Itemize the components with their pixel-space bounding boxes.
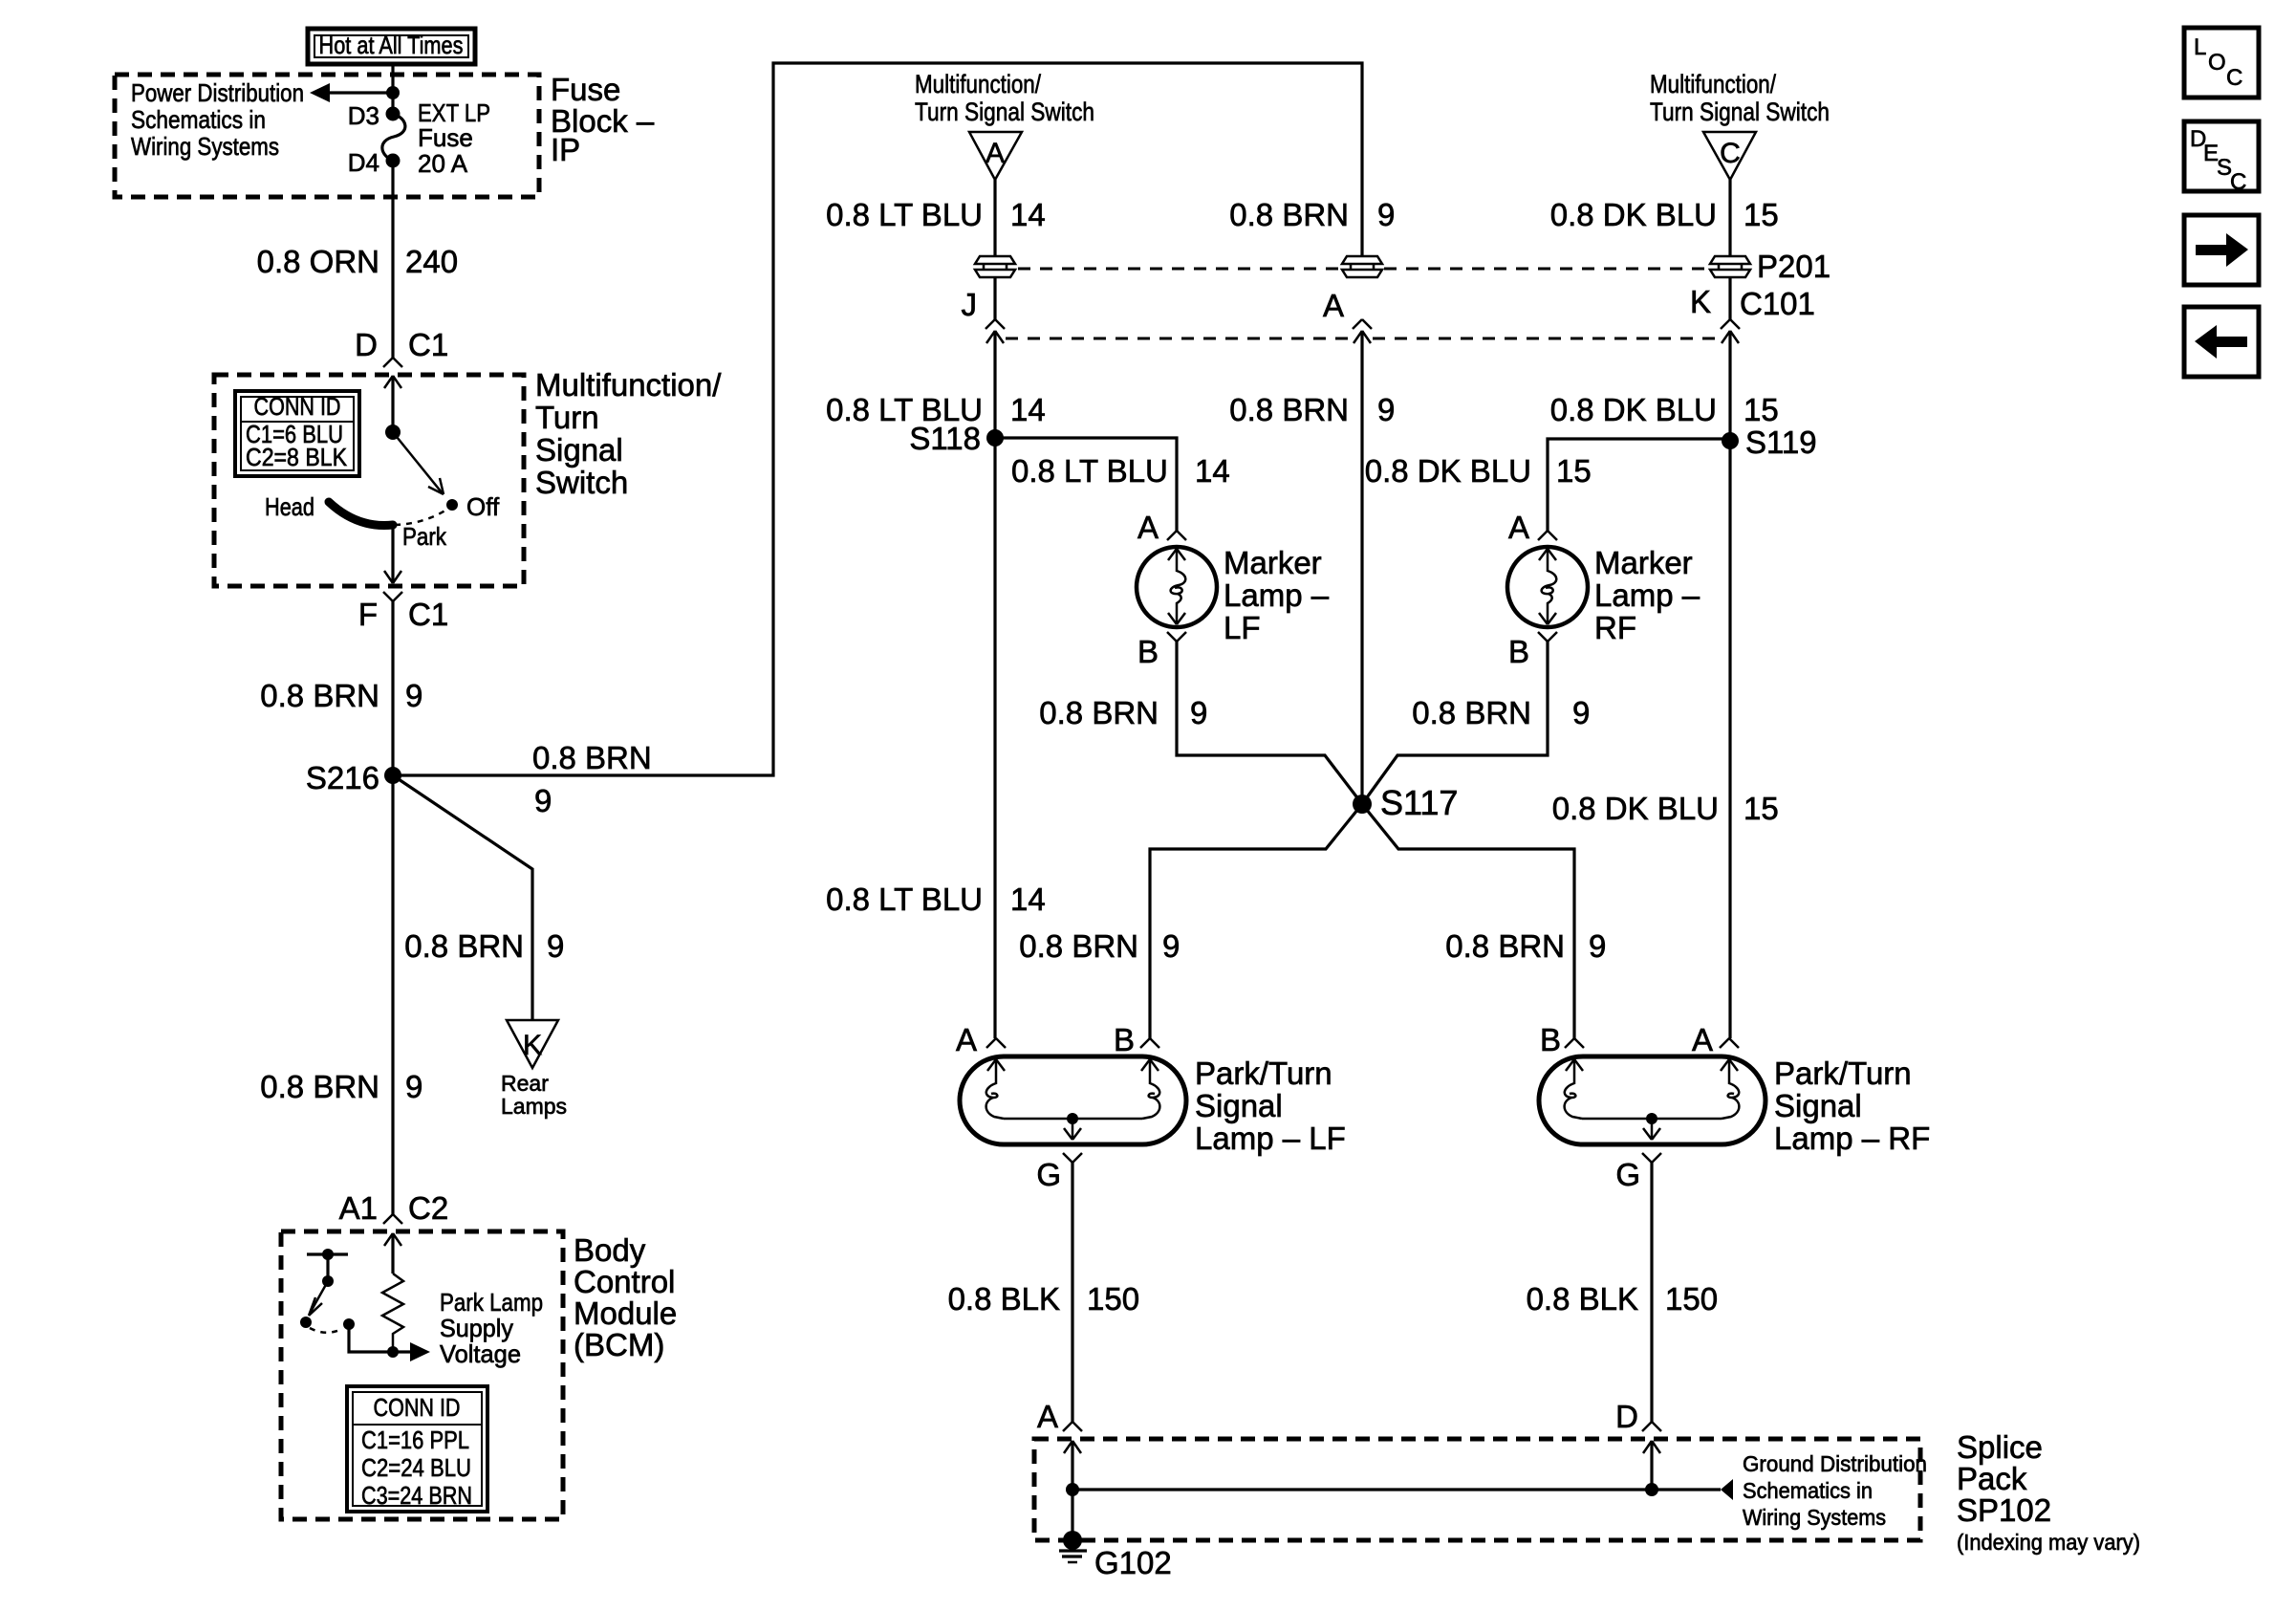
svg-text:B: B [1540,1022,1561,1057]
wire A triangle to P201, 0.8 LT BLU 14 [993,180,996,255]
triangle connector A [969,132,1022,180]
svg-text:(Indexing may vary): (Indexing may vary) [1957,1530,2140,1555]
svg-text:0.8 BRN: 0.8 BRN [1019,928,1138,964]
svg-text:MarkerLamp –RF: MarkerLamp –RF [1594,545,1700,645]
connector C101 terminal A [1323,288,1372,343]
LOC icon [2184,28,2259,98]
svg-text:Park: Park [402,522,447,551]
Power Distribution reference arrow [310,83,393,102]
svg-text:K: K [523,1030,542,1061]
junction at arrow tap [386,86,400,99]
svg-text:0.8 DK BLU: 0.8 DK BLU [1550,197,1717,232]
wire A into splice pack [1071,1441,1073,1490]
svg-text:Park/TurnSignalLamp – LF: Park/TurnSignalLamp – LF [1195,1056,1346,1156]
BCM pull-up resistor [382,1274,403,1352]
svg-text:L: L [2194,34,2206,60]
forward arrow icon [2184,215,2259,285]
svg-text:F: F [358,597,378,632]
park/turn LF terminal G [1063,1153,1082,1163]
svg-text:C2: C2 [408,1190,448,1226]
svg-text:G: G [1615,1157,1640,1192]
switch wiper Head-Park thick arc [329,502,393,526]
svg-text:CONN ID: CONN ID [374,1393,461,1422]
CONN ID table (BCM) [347,1386,487,1512]
svg-text:C3=24 BRN: C3=24 BRN [361,1481,472,1510]
BCM switch pole dot [322,1249,334,1260]
svg-text:BodyControlModule(BCM): BodyControlModule(BCM) [574,1232,677,1362]
fuse terminal D4 [386,154,401,168]
connector F C1 male arrow (down) [384,571,401,583]
svg-text:K: K [1690,284,1711,319]
svg-text:15: 15 [1556,453,1592,489]
svg-text:D4: D4 [348,148,379,177]
wire G to splice pack A, 0.8 BLK 150 [1071,1163,1073,1422]
svg-text:9: 9 [1572,695,1590,730]
BCM switch arm with arrowhead [309,1281,328,1316]
marker lamp LF bulb [1137,547,1217,627]
DESC icon [2184,121,2259,195]
splice S118 [986,429,1004,446]
park/turn RF terminal G [1642,1153,1661,1163]
svg-text:D: D [1615,1399,1638,1434]
svg-text:A1: A1 [339,1190,378,1226]
grommet P201 (middle) [1342,256,1382,277]
svg-text:P201: P201 [1757,249,1830,284]
svg-text:SplicePackSP102: SplicePackSP102 [1957,1429,2051,1528]
svg-text:9: 9 [534,783,552,818]
svg-text:J: J [962,287,978,322]
svg-text:0.8 LT BLU: 0.8 LT BLU [826,882,983,917]
BCM sense arrow to Park Lamp Supply Voltage [393,1342,430,1361]
connector D C1 female fork [383,358,402,367]
switch common pole [385,425,401,440]
svg-text:9: 9 [1190,695,1207,730]
svg-text:9: 9 [547,928,564,964]
wire Park down to F C1 [391,525,394,583]
triangle connector C [1703,132,1756,180]
svg-text:0.8 BRN: 0.8 BRN [260,1069,379,1104]
svg-text:EXT LPFuse20 A: EXT LPFuse20 A [418,98,490,178]
svg-text:14: 14 [1010,197,1046,232]
Fuse Block - IP dashed box [115,75,539,197]
svg-text:C2=8 BLK: C2=8 BLK [246,443,348,471]
svg-text:0.8 BLK: 0.8 BLK [1527,1281,1638,1317]
svg-text:A: A [1692,1022,1713,1057]
back arrow icon [2184,307,2259,377]
wire G to splice pack D, 0.8 BLK 150 [1650,1163,1653,1422]
svg-text:G: G [1036,1157,1061,1192]
splice pack SP102 dashed box [1034,1439,1920,1540]
svg-text:14: 14 [1010,392,1046,427]
svg-text:0.8 LT BLU: 0.8 LT BLU [1011,453,1168,489]
svg-text:240: 240 [405,244,458,279]
svg-text:S118: S118 [909,421,981,456]
fuse terminal D3 [386,107,401,121]
svg-text:0.8 ORN: 0.8 ORN [257,244,379,279]
wire S216 branch to rear lamps K [393,775,532,1020]
svg-text:15: 15 [1744,791,1779,826]
wire through P201 to C101 [993,278,996,321]
svg-text:B: B [1137,634,1159,669]
svg-text:A: A [1137,510,1159,545]
marker lamp RF terminal B [1538,632,1557,642]
BCM switch top bar [307,1252,348,1255]
svg-text:G102: G102 [1094,1545,1172,1580]
wire into BCM to resistor [391,1233,394,1274]
svg-text:S216: S216 [306,760,379,795]
svg-text:C: C [2226,65,2242,91]
wire from Hot box to D3 [391,64,394,114]
Body Control Module dashed box [281,1231,563,1519]
svg-text:14: 14 [1195,453,1230,489]
BCM contact wire to sense node [349,1324,393,1352]
CONN ID table (switch) [235,391,359,476]
svg-text:150: 150 [1087,1281,1139,1317]
BCM switch open contact [300,1317,312,1328]
switch arm to Off [393,432,444,494]
svg-text:Multifunction/Turn Signal Swit: Multifunction/Turn Signal Switch [915,70,1094,126]
svg-text:0.8 BRN: 0.8 BRN [1412,695,1531,730]
svg-text:0.8 BRN: 0.8 BRN [260,678,379,713]
triangle connector K [507,1020,558,1068]
connector C101 terminal K [1690,284,1740,343]
svg-text:14: 14 [1010,882,1046,917]
wire C101 A to S117, 0.8 BRN 9 [1360,331,1363,804]
svg-text:C2=24 BLU: C2=24 BLU [361,1453,471,1482]
svg-text:Head: Head [265,492,314,521]
svg-text:9: 9 [1589,928,1606,964]
svg-text:9: 9 [1162,928,1180,964]
svg-text:15: 15 [1744,197,1779,232]
svg-text:RearLamps: RearLamps [501,1071,567,1119]
connector F C1 female fork (below box) [383,592,402,601]
wire S117 to park/turn LF B, 0.8 BRN 9 [1150,804,1362,1038]
svg-text:0.8 BRN: 0.8 BRN [1039,695,1159,730]
wire marker LF B to S117, 0.8 BRN 9 [1177,642,1362,804]
wire through P201 (right) [1728,278,1731,321]
svg-text:O: O [2208,50,2226,76]
wire marker RF B to S117 [1362,642,1548,804]
svg-text:B: B [1508,634,1529,669]
Multifunction Turn Signal Switch dashed box [214,375,524,586]
svg-text:C1=16 PPL: C1=16 PPL [361,1426,469,1454]
svg-text:A: A [1037,1399,1058,1434]
connector D C1 male arrow [384,376,401,388]
grommet P201 (right) [1710,256,1750,277]
splice pack ground bus [1072,1488,1721,1491]
BCM dashed throw arc [310,1328,342,1333]
svg-text:MarkerLamp –LF: MarkerLamp –LF [1224,545,1330,645]
svg-text:0.8 BRN: 0.8 BRN [1229,392,1349,427]
marker lamp RF bulb [1507,547,1588,627]
svg-text:S119: S119 [1745,425,1817,460]
svg-text:0.8 DK BLU: 0.8 DK BLU [1552,791,1719,826]
wire D into splice pack [1650,1441,1653,1490]
wire down to G102 [1071,1490,1073,1540]
C101 dashed line [1006,337,1352,340]
park/turn signal lamp LF body [960,1056,1186,1144]
svg-text:D3: D3 [348,101,379,130]
svg-text:15: 15 [1744,392,1779,427]
svg-text:0.8 BRN: 0.8 BRN [1445,928,1565,964]
wire F C1 to S216, 0.8 BRN 9 [391,601,394,1214]
P201 dashed pass-through line [1018,268,1340,271]
svg-text:Park/TurnSignalLamp – RF: Park/TurnSignalLamp – RF [1774,1056,1930,1156]
dashed arc Park to Off [395,509,448,525]
svg-text:0.8 LT BLU: 0.8 LT BLU [826,197,983,232]
wire D4 to connector D C1, 0.8 ORN 240 [391,161,394,358]
svg-text:C: C [2230,169,2246,195]
svg-text:S117: S117 [1380,783,1458,822]
svg-text:0.8 DK BLU: 0.8 DK BLU [1365,453,1531,489]
junction on ground bus [1645,1483,1658,1496]
svg-text:Hot at All Times: Hot at All Times [319,31,464,59]
svg-text:9: 9 [405,1069,422,1104]
svg-text:CONN ID: CONN ID [254,392,341,421]
splice S216 [384,767,401,784]
svg-text:9: 9 [1377,392,1395,427]
ground bus reference arrow [1721,1479,1733,1500]
fuse EXT LP 20A element [382,114,405,161]
svg-text:9: 9 [1377,197,1395,232]
wire C101 to S118, 0.8 LT BLU 14 [993,331,996,1038]
svg-text:D: D [355,327,378,362]
svg-text:0.8 BRN: 0.8 BRN [1229,197,1349,232]
S119 branch to marker lamp RF, 0.8 DK BLU 15 [1548,439,1730,531]
wire S117 to park/turn RF B, 0.8 BRN 9 [1362,804,1574,1038]
BCM closed contact [343,1318,355,1330]
svg-text:C: C [1720,138,1741,169]
park/turn signal lamp RF body [1539,1056,1765,1144]
wire S216 right and up to top run, 0.8 BRN 9 [393,63,1362,775]
BCM sense junction [387,1346,399,1358]
svg-text:FuseBlock –IP: FuseBlock –IP [551,72,655,167]
Off contact [446,499,458,511]
svg-text:A: A [986,138,1005,169]
connector A1 C2 male arrow [384,1233,401,1246]
svg-text:Power DistributionSchematics i: Power DistributionSchematics inWiring Sy… [131,78,304,161]
svg-text:150: 150 [1665,1281,1718,1317]
ground G102 [1059,1531,1087,1562]
grommet P201 (left) [975,256,1015,277]
wire C triangle to P201, 0.8 DK BLU 15 [1728,180,1731,255]
Hot at All Times tag box [308,29,475,64]
svg-text:Multifunction/TurnSignalSwitch: Multifunction/TurnSignalSwitch [535,367,722,500]
S118 branch to marker lamp LF, 0.8 LT BLU 14 [995,438,1177,531]
svg-text:0.8 BRN: 0.8 BRN [532,740,652,775]
svg-text:B: B [1114,1022,1135,1057]
wire C101 K to S119, 0.8 DK BLU 15 [1728,331,1731,1038]
svg-text:0.8 DK BLU: 0.8 DK BLU [1550,392,1717,427]
splice S117 [1353,795,1372,814]
svg-text:0.8 BRN: 0.8 BRN [404,928,524,964]
splice S119 [1722,432,1739,449]
svg-text:C1: C1 [408,327,448,362]
svg-text:A: A [1323,288,1344,323]
svg-text:A: A [1508,510,1529,545]
svg-text:0.8 BLK: 0.8 BLK [948,1281,1060,1317]
svg-text:C1: C1 [408,597,448,632]
svg-text:A: A [956,1022,977,1057]
svg-text:9: 9 [405,678,422,713]
svg-text:C101: C101 [1740,286,1815,321]
connector A1 C2 female fork [383,1214,402,1224]
svg-text:Off: Off [466,492,500,521]
BCM switch pole stem [326,1254,329,1281]
svg-text:Ground DistributionSchematics: Ground DistributionSchematics inWiring S… [1743,1451,1927,1530]
svg-text:Multifunction/Turn Signal Swit: Multifunction/Turn Signal Switch [1650,70,1830,126]
marker lamp LF terminal B [1167,632,1186,642]
connector C101 terminal J [962,287,1006,343]
svg-text:Park LampSupplyVoltage: Park LampSupplyVoltage [440,1288,543,1368]
